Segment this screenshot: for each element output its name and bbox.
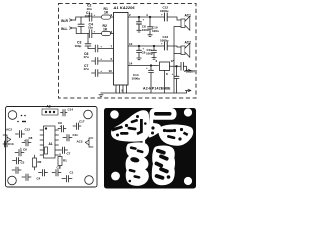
capacitor C3 xyxy=(85,42,91,49)
svg-text:C6: C6 xyxy=(23,148,27,152)
copper pour bracket mid-left xyxy=(148,123,161,137)
wire pin2 output R xyxy=(128,16,164,18)
svg-text:1K: 1K xyxy=(104,10,109,14)
schematic text labels xyxy=(61,4,196,93)
capacitor C13 xyxy=(165,42,168,50)
capacitor C9 xyxy=(137,46,142,58)
terminal -V xyxy=(185,89,191,93)
svg-text:C7: C7 xyxy=(67,152,71,156)
svg-text:A2-KP142EH8E: A2-KP142EH8E xyxy=(143,87,171,91)
node junction xyxy=(150,65,152,67)
svg-text:R2: R2 xyxy=(38,160,42,164)
svg-text:+: + xyxy=(161,42,163,46)
svg-text:AC1: AC1 xyxy=(185,14,192,18)
capacitor C1 footprint xyxy=(62,176,72,183)
capacitor C5 xyxy=(92,70,98,77)
ground bus wire xyxy=(101,92,187,94)
svg-text:C1: C1 xyxy=(70,171,74,175)
svg-text:100p: 100p xyxy=(75,44,82,48)
node junction xyxy=(138,16,140,18)
wire xyxy=(92,16,102,18)
svg-text:AC2: AC2 xyxy=(185,41,192,45)
svg-text:C8: C8 xyxy=(29,136,33,140)
capacitor C4 xyxy=(89,30,92,38)
wire IC bottom pins to ground bus xyxy=(116,85,127,93)
resistor R2 footprint xyxy=(33,155,37,170)
svg-text:+: + xyxy=(94,30,96,34)
PCB layout text labels xyxy=(6,105,85,181)
node input IN-R xyxy=(70,19,76,21)
node junction xyxy=(149,16,151,18)
capacitor C7 footprint xyxy=(59,147,68,154)
IC A1 footprint xyxy=(40,126,59,158)
resistor R2 xyxy=(102,31,111,35)
svg-text:A1 KA2206: A1 KA2206 xyxy=(113,6,136,10)
regulator A2 footprint xyxy=(42,109,58,115)
svg-text:C13: C13 xyxy=(8,142,14,146)
op-amp IC A1 KA2206 body xyxy=(114,13,129,86)
wire xyxy=(167,17,181,20)
capacitor C7 xyxy=(92,58,98,65)
mounting hole bottom-left xyxy=(8,176,17,185)
top stub trace xyxy=(143,139,146,145)
svg-text:100n: 100n xyxy=(152,29,159,33)
wire xyxy=(167,46,181,47)
voltage regulator A2 KP142EH8 xyxy=(160,62,170,71)
capacitor C8 xyxy=(137,17,142,30)
svg-text:C11: C11 xyxy=(73,133,79,137)
wire speaker AC2 return xyxy=(174,53,181,55)
copper pour blob top-left xyxy=(111,110,150,141)
wire xyxy=(87,34,89,42)
svg-text:AC2: AC2 xyxy=(77,140,83,144)
wire xyxy=(98,60,114,62)
svg-text:+: + xyxy=(146,66,148,70)
capacitor C2 footprint xyxy=(52,170,61,177)
capacitor C12 footprint xyxy=(16,131,25,138)
svg-text:C17: C17 xyxy=(79,120,85,124)
capacitor C13 footprint xyxy=(5,141,8,147)
capacitor C8 footprint xyxy=(22,140,31,147)
svg-text:A1: A1 xyxy=(49,142,53,146)
copper pour pill top-right xyxy=(150,108,177,120)
node input IN-L xyxy=(70,27,77,29)
ground xyxy=(137,58,141,60)
pad slot in pill xyxy=(154,112,172,116)
svg-text:+: + xyxy=(94,13,96,17)
schematic dashed border frame xyxy=(59,4,197,99)
wire xyxy=(88,48,95,50)
speaker AC1 xyxy=(181,16,190,30)
capacitor C9 footprint xyxy=(58,126,66,133)
svg-text:47u: 47u xyxy=(84,55,89,59)
svg-text:100p: 100p xyxy=(146,52,153,56)
wire speaker AC1 return xyxy=(174,27,181,94)
svg-text:1000u: 1000u xyxy=(132,77,141,81)
capacitor C11 xyxy=(152,46,157,58)
svg-text:R1: R1 xyxy=(63,159,67,163)
ground xyxy=(152,58,156,60)
copper trace center strip xyxy=(150,112,154,126)
svg-text:10: 10 xyxy=(109,69,113,73)
svg-text:+: + xyxy=(100,57,102,61)
capacitor C16 xyxy=(174,66,179,93)
svg-text:+: + xyxy=(172,72,174,76)
mounting hole xyxy=(110,110,119,119)
svg-text:100u: 100u xyxy=(142,28,149,32)
svg-text:C12: C12 xyxy=(25,128,31,132)
svg-text:IN-R: IN-R xyxy=(61,19,69,23)
svg-text:+: + xyxy=(161,13,163,17)
capacitor C1 xyxy=(78,17,84,34)
svg-text:+: + xyxy=(100,69,102,73)
svg-text:+: + xyxy=(143,47,145,51)
svg-text:12: 12 xyxy=(129,42,133,46)
capacitor C12 xyxy=(165,13,168,21)
svg-text:+: + xyxy=(100,44,102,48)
wire xyxy=(92,33,114,35)
mounting hole top-left xyxy=(8,111,17,120)
pads in tall pour xyxy=(154,148,170,180)
speaker AC2 xyxy=(181,43,190,57)
svg-text:+6..26V: +6..26V xyxy=(184,70,196,74)
copper pour blob bottom-right (tall) xyxy=(152,146,175,186)
capacitor C14 footprint xyxy=(61,110,68,117)
PCB board outline xyxy=(6,107,98,188)
svg-text:C4: C4 xyxy=(37,177,41,181)
pads in 3-shape xyxy=(128,146,143,182)
capacitor C5 footprint xyxy=(13,158,22,165)
ground xyxy=(137,30,141,32)
svg-text:IN-L: IN-L xyxy=(61,27,68,31)
wire supply to regulator xyxy=(128,65,159,67)
wire pin12 output L xyxy=(128,45,164,47)
wire regulator ground pin xyxy=(164,71,166,94)
mounting hole xyxy=(184,177,192,185)
ground xyxy=(99,93,103,96)
copper board xyxy=(104,108,196,189)
wire regulator output xyxy=(170,66,187,69)
svg-text:1K: 1K xyxy=(103,27,108,31)
capacitor C15 footprint xyxy=(22,174,31,181)
capacitor C4 footprint xyxy=(39,170,48,177)
pad cluster in top-left pour xyxy=(111,115,147,137)
capacitor C17 footprint xyxy=(73,123,81,130)
node junction xyxy=(153,45,155,47)
pad in bracket xyxy=(151,126,155,134)
svg-text:10n: 10n xyxy=(87,7,92,11)
capacitor C2 xyxy=(89,13,92,21)
node junction xyxy=(176,66,178,68)
svg-text:+: + xyxy=(24,139,26,143)
wire xyxy=(111,16,114,18)
capacitor C6 footprint xyxy=(15,150,24,157)
copper pour blob bottom-left (3-shape) xyxy=(126,142,149,185)
pads in mid-right pour xyxy=(163,128,188,141)
wire xyxy=(98,72,114,74)
solder pads xyxy=(17,115,26,123)
wire xyxy=(76,17,89,20)
svg-text:AC2: AC2 xyxy=(6,128,12,132)
ground xyxy=(148,35,152,37)
mounting hole xyxy=(184,108,192,116)
svg-text:14: 14 xyxy=(129,62,133,66)
svg-text:+: + xyxy=(20,146,22,150)
copper pour blob mid-right xyxy=(158,125,193,146)
svg-text:+: + xyxy=(60,124,62,128)
wire xyxy=(98,48,114,50)
mounting hole bottom-right xyxy=(85,176,94,185)
capacitor C6 xyxy=(95,45,98,52)
resistor R1 xyxy=(102,15,111,19)
mounting hole top-right xyxy=(84,110,93,119)
terminal +V xyxy=(185,69,191,72)
svg-text:100n: 100n xyxy=(85,14,92,18)
resistor R1 footprint xyxy=(58,154,62,169)
svg-text:C5: C5 xyxy=(21,161,25,165)
speaker connector AC2 footprint xyxy=(86,138,94,147)
svg-text:A2: A2 xyxy=(47,105,51,109)
svg-text:17: 17 xyxy=(171,59,175,63)
capacitor C14 xyxy=(149,66,154,94)
svg-text:C2: C2 xyxy=(57,166,61,170)
capacitor C3 footprint xyxy=(12,167,21,174)
connector AC3 footprint xyxy=(3,135,11,144)
wire xyxy=(76,28,89,34)
svg-text:+: + xyxy=(143,18,145,22)
svg-text:C14: C14 xyxy=(68,108,74,112)
svg-text:47u: 47u xyxy=(84,67,89,71)
capacitor C15 xyxy=(181,62,183,70)
capacitor C10 xyxy=(148,17,153,35)
mounting hole xyxy=(111,172,120,181)
capacitor C11 footprint xyxy=(63,135,72,142)
node junction xyxy=(138,45,140,47)
